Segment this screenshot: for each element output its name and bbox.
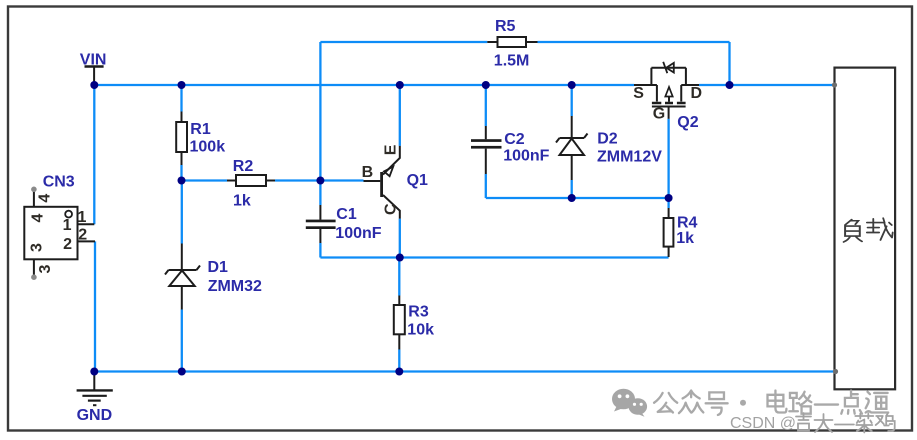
svg-text:100nF: 100nF: [503, 148, 549, 165]
svg-text:C1: C1: [336, 206, 357, 223]
node C1 top row: [316, 177, 324, 185]
resistor R5: [487, 18, 537, 70]
wire row y198: [486, 197, 669, 199]
wire D2 top: [571, 85, 573, 116]
svg-text:100k: 100k: [190, 139, 226, 156]
wire D1 top: [181, 181, 183, 244]
node C2 rail: [482, 81, 490, 89]
node R4 top row: [665, 194, 673, 202]
svg-text:GND: GND: [77, 407, 113, 424]
wire D1 bottom: [181, 310, 183, 372]
capacitor C2: [471, 126, 550, 174]
svg-text:1.5M: 1.5M: [494, 53, 530, 70]
svg-text:1k: 1k: [676, 230, 694, 247]
svg-text:R4: R4: [677, 215, 698, 232]
capacitor C1: [306, 205, 382, 243]
wire C2 bottom: [485, 174, 487, 198]
wire pin2 down to GND rail: [94, 241, 96, 371]
svg-text:VIN: VIN: [80, 51, 107, 68]
svg-text:R1: R1: [190, 121, 211, 138]
svg-text:D2: D2: [597, 131, 618, 148]
watermark text 吉大一菜鸡: [796, 413, 895, 433]
svg-text:G: G: [653, 105, 665, 122]
transistor Q1: [362, 144, 428, 218]
node Q1 collector row: [396, 254, 404, 262]
node GND junction: [90, 368, 98, 376]
svg-text:2: 2: [63, 236, 72, 253]
svg-text:Q1: Q1: [407, 172, 428, 189]
svg-text:CN3: CN3: [43, 173, 75, 190]
zener diode D1: [165, 244, 262, 310]
svg-text:1: 1: [78, 209, 87, 226]
node VIN junction: [90, 81, 98, 89]
wire GND rail: [94, 370, 835, 372]
wire D2 bottom: [571, 180, 573, 198]
wire R1 top: [180, 85, 182, 112]
svg-text:C2: C2: [504, 131, 525, 148]
ground GND: [77, 372, 113, 425]
wire top R5 right: [538, 41, 730, 43]
port VIN: [80, 51, 107, 85]
load box 负载: [832, 68, 895, 390]
svg-text:S: S: [633, 85, 644, 102]
resistor R3: [394, 296, 434, 350]
svg-text:D1: D1: [208, 259, 229, 276]
wire Q1 collector down: [399, 219, 401, 258]
svg-text:1: 1: [63, 217, 72, 234]
svg-text:D: D: [691, 85, 703, 102]
wire R4 top: [667, 198, 669, 208]
watermark CSDN text: [730, 415, 796, 432]
node R5 out: [726, 81, 734, 89]
wire vertical x729: [728, 42, 730, 85]
node R1 top: [178, 81, 186, 89]
resistor R4: [664, 208, 698, 257]
svg-text:R3: R3: [408, 303, 429, 320]
svg-text:B: B: [362, 164, 374, 181]
svg-text:CSDN @: CSDN @: [730, 415, 796, 432]
wire row y181 left: [182, 179, 228, 181]
svg-text:C: C: [382, 203, 399, 215]
connector CN3: [24, 173, 95, 280]
svg-text:2: 2: [78, 226, 87, 243]
svg-text:R2: R2: [233, 158, 254, 175]
node Q1 emitter rail: [396, 81, 404, 89]
wire VIN down to pin1: [93, 85, 95, 224]
svg-text:ZMM12V: ZMM12V: [597, 148, 662, 165]
svg-text:ZMM32: ZMM32: [208, 278, 262, 295]
node R3 bottom rail: [395, 368, 403, 376]
wire OUT rail right: [699, 84, 835, 86]
wire VIN rail left: [94, 84, 634, 86]
wire Q1 emitter up: [399, 85, 401, 146]
wire top R5 left: [320, 41, 487, 43]
node D2 rail: [568, 81, 576, 89]
resistor R1: [176, 112, 225, 166]
svg-text:100nF: 100nF: [335, 225, 381, 242]
wire C2 top: [485, 85, 487, 126]
svg-text:10k: 10k: [407, 322, 434, 339]
wire row y181 right: [275, 179, 364, 181]
load label 负: [844, 220, 862, 242]
node D2 bottom row: [568, 194, 576, 202]
watermark text 公众号·电路一点通: [654, 391, 888, 415]
svg-text:R5: R5: [495, 18, 516, 35]
svg-text:Q2: Q2: [677, 114, 698, 131]
wire Q2 gate down: [667, 119, 669, 198]
mosfet Q2: [633, 62, 702, 131]
node R1 bottom row: [178, 177, 186, 185]
svg-text:1k: 1k: [233, 192, 251, 209]
wire C1 top: [319, 181, 321, 206]
svg-text:4: 4: [36, 194, 53, 203]
svg-text:3: 3: [37, 264, 54, 273]
watermark separator dot: [740, 400, 746, 406]
wire R3 bottom: [398, 350, 400, 372]
wire C1 bottom: [319, 243, 321, 258]
svg-text:E: E: [382, 144, 399, 155]
resistor R2: [227, 158, 275, 209]
wire row y257: [320, 256, 668, 258]
svg-text:3: 3: [29, 243, 46, 252]
wire R1 bottom: [180, 165, 182, 181]
wire vertical x320: [319, 42, 321, 181]
load label 载: [867, 218, 893, 240]
wire R3 top: [398, 258, 400, 296]
zener diode D2: [556, 116, 662, 180]
svg-text:4: 4: [30, 213, 47, 222]
node D1 bottom rail: [178, 368, 186, 376]
watermark wechat icon: [612, 389, 647, 417]
